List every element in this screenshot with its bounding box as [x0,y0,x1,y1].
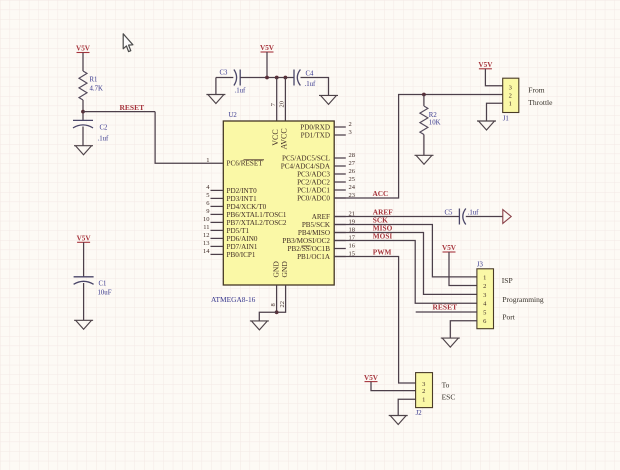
power V5V (C1) [77,235,92,243]
svg-text:4.7K: 4.7K [90,86,103,93]
power V5V (J2) [364,374,379,382]
svg-text:Throttle: Throttle [528,98,553,107]
svg-text:22: 22 [279,301,286,308]
pin 10 stub [211,221,224,223]
svg-text:5: 5 [206,192,209,199]
svg-text:ISP: ISP [502,276,513,285]
svg-text:J2: J2 [416,410,423,417]
wire SCK to J3 pin1 [334,225,477,277]
svg-text:PB1/OC1A: PB1/OC1A [297,253,331,261]
wire to C3 [216,77,233,79]
pin 5 stub [211,197,224,199]
svg-text:V5V: V5V [77,235,92,243]
connector J1 body [503,78,519,112]
svg-text:.1uf: .1uf [98,136,109,143]
svg-text:10uF: 10uF [98,290,112,297]
wire ACC pin23 to J1 pin2 [334,95,503,199]
wire RESET to J3 pin5 [416,311,477,313]
ground (J1) [477,121,496,130]
svg-text:PB5/SCK: PB5/SCK [302,221,331,229]
power V5V (J1) [478,61,493,69]
svg-text:16: 16 [349,242,356,249]
svg-text:28: 28 [349,152,356,159]
svg-text:1: 1 [483,274,486,281]
svg-text:PC2/ADC2: PC2/ADC2 [297,178,330,186]
svg-text:GND: GND [280,261,289,278]
wire V5V rail [240,77,294,79]
wire C3 left to ground [215,78,217,95]
svg-text:PB7/XTAL2/TOSC2: PB7/XTAL2/TOSC2 [227,219,287,227]
svg-text:27: 27 [349,160,356,167]
svg-text:PB3/MOSI/OC2: PB3/MOSI/OC2 [282,237,330,245]
ground (U2) [250,321,269,330]
wire MOSI to J3 pin4 [334,241,477,304]
pin 18 stub [334,232,346,234]
svg-text:PC0/ADC0: PC0/ADC0 [297,194,330,202]
svg-text:PC1/ADC1: PC1/ADC1 [297,186,330,194]
capacitor C4 [294,70,300,86]
wire J1 pin1 to ground [487,103,503,121]
resistor R2 [420,106,428,135]
wire RESET to pin 1 [155,112,223,164]
svg-text:PD0/RXD: PD0/RXD [300,123,330,131]
svg-text:ACC: ACC [373,189,389,198]
pin 3 stub [334,134,346,136]
capacitor C3 [234,70,240,86]
wire AREF [334,216,459,218]
off-sheet port (AREF) [503,210,511,224]
svg-text:PC6/RESET: PC6/RESET [227,160,264,168]
svg-text:From: From [528,85,544,94]
svg-text:V5V: V5V [76,45,91,53]
wire C2 to ground [82,127,84,146]
junction pin7 [275,76,279,80]
svg-text:1: 1 [422,397,425,404]
svg-text:5: 5 [483,309,486,316]
svg-text:12: 12 [203,232,210,239]
wire C5 to port [466,216,503,218]
pin 21 stub [334,216,346,218]
mouse cursor [123,34,133,52]
wire R1 to node RESET [82,100,84,120]
svg-text:14: 14 [203,248,210,255]
pin 11 stub [211,229,224,231]
svg-text:10K: 10K [429,120,441,127]
svg-text:J3: J3 [477,261,484,268]
svg-text:PD7/AIN1: PD7/AIN1 [227,243,258,251]
capacitor C2 [73,120,93,128]
svg-text:PD6/AIN0: PD6/AIN0 [227,235,258,243]
pin 23 stub [334,197,346,199]
svg-text:PB4/MISO: PB4/MISO [298,229,330,237]
svg-text:11: 11 [203,224,209,231]
resistor R1 [79,71,87,100]
svg-text:3: 3 [509,85,512,92]
op IC U2 ATMEGA8-16 body [223,121,334,285]
wire RESET horizontal [83,111,155,113]
svg-text:8: 8 [270,303,277,306]
pin 6 stub [211,205,224,207]
svg-text:RESET: RESET [433,303,458,312]
svg-text:.1uf: .1uf [468,209,479,216]
wire J2 pin1 to ground [398,399,415,415]
pin 13 stub [211,245,224,247]
power V5V (VCC rail) [260,44,275,52]
svg-text:C2: C2 [100,125,109,132]
pin 27 stub [334,165,346,167]
ground (C2) [74,146,93,155]
pin 4 stub [211,189,224,191]
svg-text:AVCC: AVCC [280,128,289,149]
wire J3 pin6 to ground [450,321,477,338]
svg-text:1: 1 [509,101,512,108]
power V5V (J3) [442,244,457,252]
svg-text:RESET: RESET [120,103,145,112]
ground (C4) [319,95,338,104]
connector J3 body [477,269,494,329]
svg-text:V5V: V5V [442,244,457,252]
svg-text:C1: C1 [99,281,107,288]
pin 14 stub [211,253,224,255]
ground (J3) [441,338,460,347]
svg-text:C4: C4 [306,70,315,77]
svg-text:V5V: V5V [260,44,275,52]
pin 28 stub [334,157,346,159]
svg-text:3: 3 [349,129,352,136]
svg-text:2: 2 [349,121,352,128]
pin 9 stub [211,213,224,215]
svg-text:20: 20 [278,101,285,108]
svg-text:Port: Port [502,313,515,322]
wire C1 to ground [83,283,85,320]
wire MISO to J3 pin3 [334,233,477,295]
pin 12 stub [211,237,224,239]
svg-text:MOSI: MOSI [373,232,393,241]
capacitor C5 [459,209,465,225]
svg-text:ESC: ESC [442,393,456,402]
svg-text:13: 13 [203,240,210,247]
svg-text:PD3/INT1: PD3/INT1 [227,195,258,203]
junction GND node [275,310,279,314]
svg-text:PD1/TXD: PD1/TXD [301,131,330,139]
svg-text:PB6/XTAL1/TOSC1: PB6/XTAL1/TOSC1 [227,211,287,219]
svg-text:.1uf: .1uf [235,88,246,95]
svg-text:PC4/ADC4/SDA: PC4/ADC4/SDA [281,162,331,170]
svg-text:PD2/INT0: PD2/INT0 [227,187,258,195]
ground (J2) [389,416,408,425]
connector J2 body [416,373,433,408]
ground (R2) [415,155,434,164]
svg-text:2: 2 [422,388,425,395]
svg-text:R1: R1 [90,77,98,84]
svg-text:R2: R2 [429,112,438,119]
pin 26 stub [334,173,346,175]
wire V5V to C1 [83,242,85,276]
svg-text:9: 9 [206,208,209,215]
svg-text:2: 2 [483,283,486,290]
svg-text:3: 3 [483,292,486,299]
junction pin20 [284,76,288,80]
capacitor C1 [74,277,94,285]
wire GND node to ground [259,312,276,321]
svg-text:PC5/ADC5/SCL: PC5/ADC5/SCL [282,154,330,162]
svg-text:Programming: Programming [502,295,543,304]
svg-text:V5V: V5V [478,61,493,69]
svg-text:U2: U2 [229,112,238,119]
pin 16 stub [334,248,346,250]
svg-text:C3: C3 [220,70,229,77]
wire PWM to J2 pin3 [334,257,415,384]
svg-text:10: 10 [203,216,210,223]
svg-text:J1: J1 [503,116,509,123]
svg-text:PC3/ADC3: PC3/ADC3 [297,170,330,178]
wire junction to R2 [423,95,425,107]
svg-text:PD4/XCK/T0: PD4/XCK/T0 [227,203,267,211]
wire VCC pin 7 [276,78,278,121]
wire AVCC pin 20 [284,78,286,121]
svg-text:25: 25 [349,176,356,183]
ground (C3) [206,95,225,104]
svg-text:2: 2 [509,93,512,100]
wire V5V to R1 [82,53,84,72]
wire V5V to J3 pin2 [449,252,477,286]
svg-text:3: 3 [422,381,425,388]
pin 25 stub [334,181,346,183]
junction V5V rail [265,76,269,80]
svg-text:AREF: AREF [312,213,330,221]
wire GND pin 22 [277,285,286,312]
power V5V (R1 top) [76,45,91,53]
junction RESET node [81,110,85,114]
pin 19 stub [334,224,346,226]
svg-text:PB0/ICP1: PB0/ICP1 [227,251,256,259]
pin 17 stub [334,240,346,242]
svg-text:ATMEGA8-16: ATMEGA8-16 [211,295,256,304]
pin 24 stub [334,189,346,191]
svg-text:PD5/T1: PD5/T1 [227,227,250,235]
ground (C1) [74,320,93,329]
wire V5V to J2 pin2 [371,382,416,391]
svg-text:To: To [442,380,450,389]
wire V5V to J1 pin3 [485,69,502,86]
wire GND pin 8 [276,285,278,312]
wire V5V drop [266,52,268,78]
wire C4 to ground [301,78,329,96]
svg-text:V5V: V5V [364,374,379,382]
svg-text:24: 24 [349,184,356,191]
svg-text:.1uf: .1uf [305,81,316,88]
svg-text:C5: C5 [445,209,454,216]
svg-text:PWM: PWM [373,248,392,257]
wire R2 to ground [423,135,425,156]
svg-text:26: 26 [349,168,356,175]
pin 2 stub [334,126,346,128]
pin 15 stub [334,256,346,258]
svg-text:1: 1 [206,157,209,164]
junction R2 top [422,93,426,97]
